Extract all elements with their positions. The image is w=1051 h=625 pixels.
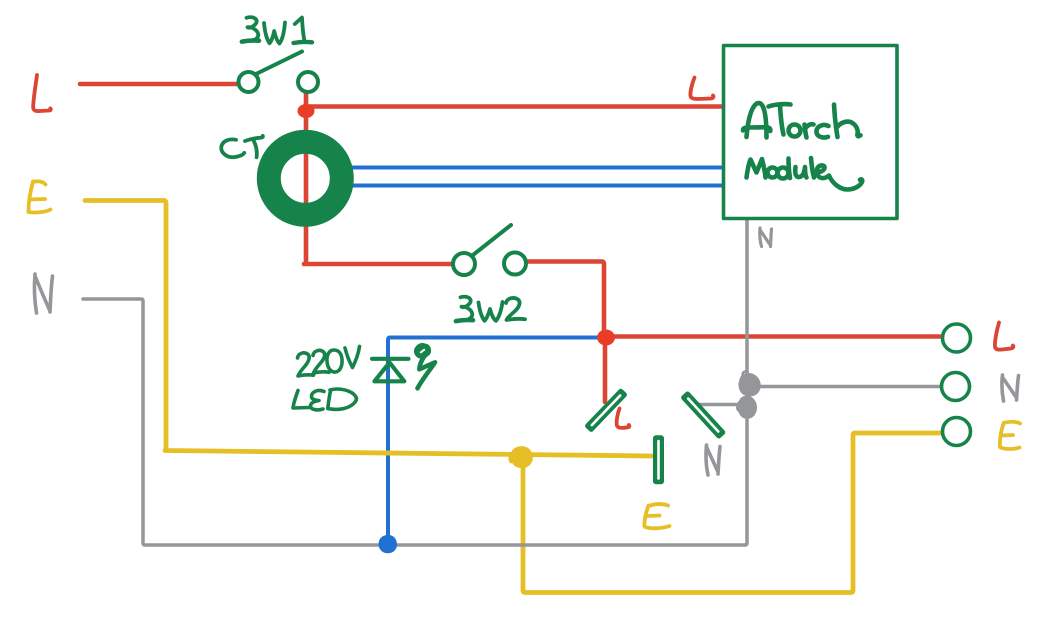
switch SW1 right contact: [298, 72, 318, 92]
label SW1: [242, 17, 312, 43]
wire N stub to N connector (gray): [696, 403, 741, 407]
label E at terminal (yellow): [1000, 422, 1020, 449]
wire CT bottom to SW2 (red): [304, 262, 452, 267]
connector bar E (green vertical): [653, 435, 664, 484]
label 220V: [298, 347, 360, 377]
gray junction blob lower: [739, 397, 756, 418]
label N input (gray): [35, 274, 53, 313]
wire E node down and around to E terminal circle (yellow): [523, 433, 941, 593]
wire L input (red): [80, 82, 237, 87]
terminal circle E: [943, 418, 971, 446]
LED diode triangle: [375, 363, 405, 382]
label N at terminal (gray): [1002, 375, 1019, 401]
terminal circle L: [943, 324, 971, 352]
wire LED branch horizontal (blue): [388, 338, 604, 546]
LED light arrow: [415, 344, 430, 358]
wire SW2 to node B (red): [527, 262, 604, 338]
wire N junction to N terminal circle (gray): [750, 385, 940, 389]
LED diode cathode bar: [372, 357, 409, 361]
wire node B to L terminal circle (red): [604, 334, 940, 339]
ATorch module box: [724, 46, 898, 219]
wire node B stub down to L connector (red): [603, 337, 608, 402]
wire ATorch N down (gray): [745, 219, 747, 545]
label L at connector (red): [617, 409, 630, 428]
terminal circle N: [942, 373, 970, 401]
node B junction dot (red): [597, 330, 615, 346]
wire E run to E connector (yellow): [165, 451, 652, 457]
wire CT secondary lower (blue): [352, 184, 723, 188]
label Module: [747, 158, 863, 190]
connector bar N (green diagonal): [680, 390, 726, 439]
label L at ATorch (red): [690, 78, 713, 100]
label L input (red): [33, 75, 51, 111]
switch SW2 left contact: [453, 253, 475, 275]
label ATorch: [743, 103, 861, 137]
label E input (yellow): [29, 181, 51, 212]
label N at connector (gray): [706, 445, 720, 475]
switch SW2 right contact: [504, 253, 526, 275]
node D blue junction dot: [380, 536, 396, 552]
label N at ATorch (gray): [760, 228, 772, 247]
node C yellow junction dot: [512, 447, 532, 466]
wire node to ATorch L (red): [306, 104, 723, 109]
label E at connector (yellow): [644, 504, 669, 528]
label CT: [221, 136, 263, 158]
label LED: [293, 389, 356, 410]
label L at terminal (red): [995, 323, 1013, 350]
label SW2: [456, 297, 525, 322]
node A junction dot (red): [298, 104, 315, 118]
switch SW1 lever: [256, 52, 302, 75]
wire N input (gray): [83, 299, 745, 545]
connector bar L (green diagonal): [584, 388, 628, 433]
wire CT secondary upper (blue): [352, 166, 723, 170]
switch SW2 lever: [473, 225, 511, 255]
wire E input horizontal (yellow): [85, 201, 166, 450]
current transformer CT ring: [269, 142, 342, 215]
wire SW1 to CT vertical (red): [304, 92, 309, 264]
gray junction blob upper: [740, 374, 760, 395]
switch SW1 left contact: [239, 72, 259, 92]
